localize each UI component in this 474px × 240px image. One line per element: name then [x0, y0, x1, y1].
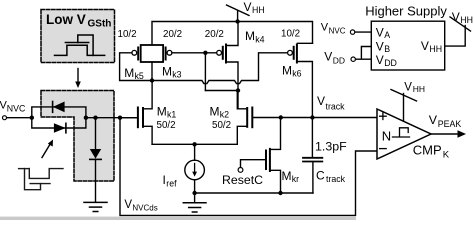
diode network dashed box: [41, 91, 114, 182]
diode D2 (lower, pointing right): [54, 123, 66, 133]
svg-text:track: track: [326, 174, 346, 184]
waveform mid level line: [65, 42, 88, 44]
input VNVC to higher supply: [321, 22, 372, 36]
svg-text:M: M: [210, 104, 220, 118]
svg-text:20/2: 20/2: [205, 29, 224, 40]
wire node B (Mk4 gate to drain): [205, 88, 240, 109]
svg-text:V: V: [376, 53, 384, 67]
svg-text:track: track: [326, 102, 346, 112]
label VPEAK: [429, 113, 462, 129]
svg-text:V: V: [124, 199, 132, 211]
svg-text:DD: DD: [333, 55, 345, 65]
svg-text:1.3pF: 1.3pF: [315, 139, 347, 153]
svg-text:K: K: [443, 149, 450, 160]
svg-text:M: M: [124, 66, 134, 80]
label 20/2 (Mk4): [205, 29, 224, 40]
svg-text:M: M: [245, 29, 255, 43]
pin VDD inside: [376, 53, 397, 68]
svg-text:k6: k6: [292, 69, 301, 79]
label Mk5: [124, 66, 144, 81]
svg-text:HH: HH: [429, 44, 442, 54]
terminal ResetC: [222, 168, 263, 188]
svg-text:V: V: [376, 39, 384, 53]
trench MOS sketch symbol: [19, 169, 63, 190]
svg-text:k3: k3: [172, 70, 181, 80]
pin VHH inside: [421, 39, 442, 54]
svg-text:10/2: 10/2: [281, 28, 300, 39]
op-amp CMPK triangle: [377, 109, 431, 159]
svg-text:kr: kr: [292, 174, 299, 184]
svg-text:V: V: [317, 94, 325, 108]
svg-text:ref: ref: [166, 179, 177, 189]
pin VB: [376, 39, 390, 54]
svg-text:V: V: [321, 22, 329, 34]
label Mk3: [162, 64, 182, 79]
input VDD to higher supply: [324, 47, 371, 66]
label Mk2 50/2: [210, 104, 232, 131]
wire diode bridge frame: [32, 107, 86, 128]
current source Iref: [185, 160, 205, 193]
svg-text:V: V: [452, 10, 460, 24]
label Mk4: [245, 29, 265, 44]
svg-text:M: M: [157, 104, 167, 118]
svg-text:V: V: [376, 25, 384, 39]
svg-text:A: A: [384, 30, 390, 40]
label 1.3pF: [315, 139, 347, 153]
svg-text:50/2: 50/2: [157, 120, 176, 131]
diode D3 (vertical, to ground): [90, 118, 101, 202]
svg-text:N: N: [382, 129, 391, 144]
pin VA: [376, 25, 390, 40]
svg-text:20/2: 20/2: [163, 29, 182, 40]
svg-text:NVC: NVC: [7, 104, 26, 114]
svg-text:C: C: [316, 168, 325, 182]
svg-text:M: M: [282, 169, 292, 183]
minus input mark: [380, 148, 387, 150]
node Vtrack label: [317, 94, 345, 111]
svg-text:HH: HH: [413, 84, 425, 94]
label 20/2 (Mk3): [163, 29, 182, 40]
supply slash VHH top: [227, 0, 265, 16]
transistor Mk3 gate: [166, 48, 217, 60]
wire node A (Mk5 drain to Mk6 gate) with crossover dips: [152, 53, 287, 84]
svg-text:GSth: GSth: [88, 18, 112, 29]
svg-text:V: V: [324, 50, 332, 64]
svg-text:HH: HH: [460, 15, 473, 25]
svg-text:NVC: NVC: [329, 26, 346, 35]
label CMPK: [413, 143, 450, 161]
svg-text:V: V: [429, 113, 438, 127]
transistor Mk5 gate: [120, 48, 152, 81]
wire Vtrack: [279, 115, 377, 119]
svg-text:k5: k5: [135, 71, 144, 81]
waveform high pulse: [78, 35, 93, 55]
transistor Mk2 (mirrored): [237, 91, 280, 145]
output VHH of higher supply: [445, 10, 473, 46]
label Mk1 50/2: [157, 104, 177, 131]
capacitor Ctrack: [303, 118, 322, 194]
label 10/2 (Mk5): [118, 29, 137, 40]
node Mk3/Mk4 gate junction: [203, 51, 207, 91]
svg-text:10/2: 10/2: [118, 29, 137, 40]
plus input mark: [380, 113, 387, 120]
diode D1 (upper, pointing left): [53, 102, 65, 113]
transistor Mk4: [217, 22, 238, 91]
svg-text:M: M: [162, 64, 172, 78]
svg-text:DD: DD: [384, 58, 397, 68]
ground under D3: [84, 202, 107, 211]
svg-text:PEAK: PEAK: [438, 119, 462, 129]
svg-text:CMP: CMP: [413, 143, 442, 158]
svg-text:Higher Supply: Higher Supply: [365, 4, 447, 19]
svg-text:B: B: [384, 44, 390, 54]
transistor pair Mk5/Mk3 shared box: [141, 45, 163, 83]
block Higher Supply: [365, 4, 447, 70]
bottom gray band: [0, 217, 356, 220]
svg-text:V: V: [421, 39, 429, 53]
wire VNVCds rail: [120, 118, 377, 216]
label Mkr: [282, 169, 300, 184]
label N with latch pulse: [382, 128, 410, 144]
svg-text:k1: k1: [167, 110, 176, 120]
Low VGSth dashed box: [41, 10, 115, 63]
supply stub VHH comparator: [391, 81, 425, 121]
svg-text:50/2: 50/2: [212, 120, 231, 131]
svg-text:M: M: [282, 63, 292, 77]
svg-text:NVCds: NVCds: [132, 204, 157, 213]
node VHH top junction: [235, 19, 239, 23]
node diode output junction: [84, 116, 137, 120]
wire diff pair tail: [152, 142, 237, 160]
annotation arrow (points to D2): [42, 140, 53, 158]
transistor Mk1: [138, 81, 152, 144]
label Mk6: [282, 63, 302, 78]
svg-text:ResetC: ResetC: [222, 173, 263, 187]
label Ctrack: [316, 168, 346, 184]
wire bottom ground rail: [192, 191, 313, 203]
waveform low pulse: [55, 45, 105, 55]
transistor Mkr: [241, 118, 281, 194]
arrow from Low VGSth box to diode box: [75, 69, 81, 89]
node VNVCds label: [124, 199, 157, 212]
wire output VPEAK arrow: [431, 130, 466, 137]
ground under Iref: [183, 203, 206, 212]
svg-text:V: V: [404, 81, 412, 93]
label Iref: [163, 173, 178, 189]
svg-text:k4: k4: [255, 34, 264, 44]
transistor Mk6: [288, 43, 313, 117]
svg-text:k2: k2: [220, 110, 229, 120]
svg-text:Low V: Low V: [46, 12, 86, 27]
supply rail VHH top: [152, 11, 313, 45]
transistor Mk1 gate wire: [120, 117, 137, 119]
svg-text:V: V: [244, 0, 252, 14]
node VNVC input terminal: [0, 100, 34, 120]
label 10/2 (Mk6): [281, 28, 300, 39]
svg-text:HH: HH: [252, 5, 265, 15]
